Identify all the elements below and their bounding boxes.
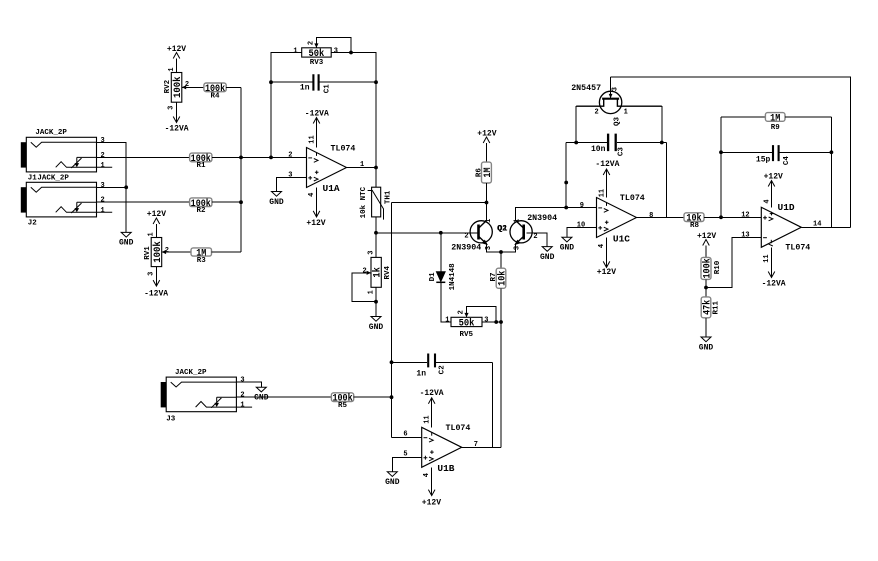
svg-text:R9: R9	[771, 124, 781, 132]
wire base node to D1	[440, 233, 442, 272]
wire U1D pin13 to divider	[706, 237, 761, 287]
junction R5/U1B node	[390, 395, 394, 399]
svg-text:C3: C3	[617, 147, 625, 157]
svg-text:1: 1	[168, 67, 176, 71]
svg-text:GND: GND	[369, 323, 384, 332]
svg-text:R7: R7	[490, 272, 498, 281]
svg-text:1: 1	[293, 47, 297, 55]
wire feedback top	[611, 77, 851, 227]
wire U1C pin11 to -12VA	[606, 169, 608, 198]
wire C3 right down to U1C output	[666, 143, 668, 218]
resistor R11 47k	[701, 297, 711, 318]
junction R9/C4 left node	[719, 215, 723, 219]
svg-text:+12V: +12V	[697, 232, 716, 241]
wire Q2 base to GND	[526, 233, 547, 247]
svg-text:D1: D1	[429, 272, 437, 282]
svg-text:C2: C2	[439, 365, 447, 375]
svg-text:R3: R3	[197, 257, 207, 265]
svg-text:U1C: U1C	[613, 234, 630, 245]
ground U1B pin5	[387, 472, 397, 477]
wire Q2 emitter	[501, 244, 516, 252]
svg-text:GND: GND	[560, 244, 575, 253]
svg-text:3: 3	[240, 377, 244, 385]
wire RV3 wiper loop	[316, 38, 351, 53]
wire R10 to divider node	[705, 279, 707, 297]
wire emitters to R7	[500, 252, 502, 268]
svg-text:-12VA: -12VA	[305, 110, 329, 119]
svg-text:2: 2	[165, 247, 169, 255]
resistor R6 1M	[482, 162, 492, 183]
svg-text:1: 1	[624, 108, 628, 116]
op-amp U1D TL074	[761, 207, 801, 247]
wire J2 pin2 to R2	[97, 201, 190, 203]
svg-text:TL074: TL074	[446, 424, 471, 433]
wire RV3 pin1 to inverting node	[271, 53, 302, 158]
svg-text:R4: R4	[210, 92, 220, 100]
wire U1A out to TH1	[375, 168, 377, 188]
svg-text:1: 1	[445, 317, 449, 325]
junction RV5/R7 node	[499, 320, 503, 324]
wire R7 to RV5 node	[500, 288, 502, 322]
potentiometer RV1 100k	[151, 238, 162, 267]
wire R2 to summing node	[212, 201, 241, 203]
svg-text:1: 1	[101, 162, 105, 170]
svg-text:R1: R1	[196, 162, 206, 170]
wire U1B output	[462, 446, 501, 448]
svg-text:JACK_2P: JACK_2P	[35, 129, 67, 137]
wire R9 right	[785, 116, 831, 118]
svg-text:4: 4	[308, 193, 316, 197]
op-amp U1C TL074	[597, 198, 637, 238]
junction C4 right	[830, 150, 834, 154]
wire +12V to R6	[486, 143, 488, 162]
svg-text:15p: 15p	[756, 156, 771, 165]
svg-text:GND: GND	[540, 253, 555, 262]
svg-text:-12VA: -12VA	[420, 389, 444, 398]
svg-text:GND: GND	[699, 343, 714, 352]
wire Q1 collector	[486, 203, 488, 221]
wire U1B pin5 to GND	[392, 457, 421, 472]
svg-text:100k: 100k	[702, 258, 714, 278]
svg-text:-12VA: -12VA	[762, 279, 786, 288]
svg-text:C4: C4	[783, 156, 791, 166]
svg-text:1: 1	[514, 219, 522, 223]
svg-text:1: 1	[101, 207, 105, 215]
wire TH1 to base node	[375, 217, 377, 233]
svg-text:TL074: TL074	[331, 145, 356, 154]
svg-text:3: 3	[101, 182, 105, 190]
svg-text:9: 9	[580, 202, 584, 210]
wire RV2 wiper to R4	[182, 86, 204, 88]
wire Q1 emitter	[487, 244, 502, 252]
junction R1/R4 node	[239, 156, 243, 160]
svg-text:U1D: U1D	[778, 202, 795, 213]
svg-text:10k: 10k	[497, 271, 509, 286]
svg-text:JACK_2P: JACK_2P	[37, 175, 69, 183]
resistor R8 10k	[684, 213, 704, 222]
wire U1A pin4 to +12V	[316, 188, 318, 217]
wire J1 pin3 to J2 pin3 to GND	[97, 142, 127, 232]
svg-text:1M: 1M	[770, 113, 780, 124]
ground U1A pin3	[272, 192, 282, 197]
wire RV5 wiper loop	[467, 307, 497, 323]
svg-text:RV5: RV5	[459, 331, 473, 339]
svg-text:Q1: Q1	[498, 224, 508, 233]
junction TH1/RV4/base node	[374, 231, 378, 235]
svg-text:2: 2	[240, 392, 244, 400]
resistor R3 1M	[191, 248, 212, 256]
ground R11	[701, 337, 711, 342]
wire Q3 gate to feedback	[610, 77, 612, 98]
svg-text:RV4: RV4	[384, 266, 392, 280]
wire R9 left leg	[720, 117, 722, 217]
svg-text:2N5457: 2N5457	[571, 84, 601, 93]
svg-text:Q3: Q3	[613, 117, 621, 127]
svg-text:3: 3	[147, 272, 155, 276]
wire R8 to U1D pin12	[704, 216, 761, 218]
wire U1A output	[347, 167, 377, 169]
svg-text:12: 12	[741, 212, 749, 220]
wire R4 to bus	[226, 86, 241, 88]
svg-text:1n: 1n	[416, 370, 426, 379]
svg-text:8: 8	[649, 212, 653, 220]
svg-text:1: 1	[367, 290, 375, 294]
potentiometer RV4 1k	[371, 257, 381, 287]
junction C3 left branch	[564, 181, 568, 185]
wire +12V to R10	[705, 246, 707, 258]
svg-text:11: 11	[763, 254, 771, 262]
svg-text:3: 3	[484, 317, 488, 325]
op-amp U1B TL074	[422, 427, 462, 467]
svg-text:2N3904: 2N3904	[451, 243, 481, 252]
svg-text:1: 1	[148, 232, 156, 236]
svg-text:J1: J1	[28, 175, 38, 183]
svg-text:2: 2	[362, 268, 366, 276]
junction R1/RV3 node	[269, 156, 273, 160]
resistor R5 100k	[331, 393, 353, 402]
svg-text:RV1: RV1	[144, 246, 152, 260]
svg-text:-12VA: -12VA	[144, 289, 168, 298]
svg-text:2: 2	[101, 152, 105, 160]
svg-text:R2: R2	[196, 207, 206, 215]
junction U1C pin9 node	[564, 206, 568, 210]
wire U1C pin4 to +12V	[606, 238, 608, 268]
wire R7 node to U1B output	[500, 322, 502, 447]
svg-text:1M: 1M	[483, 167, 494, 177]
wire R9 right leg	[830, 117, 832, 227]
svg-text:+12V: +12V	[422, 498, 441, 507]
svg-text:-12VA: -12VA	[595, 160, 619, 169]
svg-text:TH1: TH1	[384, 190, 392, 204]
resistor R4 100k	[204, 83, 226, 92]
capacitor C1 1n	[271, 81, 376, 83]
wire RV2 pin1	[176, 59, 178, 73]
wire R1 to U1A pin2	[212, 156, 307, 158]
wire RV1 wiper to R3	[162, 251, 191, 253]
svg-text:2: 2	[594, 108, 598, 116]
wire J3 pin2 to R5	[237, 396, 332, 398]
wire U1C output to R8	[637, 216, 685, 218]
wire RV4 wiper loop to pin1	[352, 273, 376, 302]
potentiometer RV5 50k	[451, 317, 482, 326]
connector J2 JACK_2P	[26, 182, 96, 217]
junction C3 right / Q3 drain	[660, 141, 664, 145]
transistor Q2 2N3904	[510, 221, 532, 243]
wire C3 left vertical	[565, 143, 567, 208]
junction U1A output node	[374, 166, 378, 170]
wire base node to RV4	[375, 233, 377, 258]
svg-text:TL074: TL074	[785, 244, 810, 253]
svg-text:10: 10	[577, 221, 585, 229]
ground Q2 base	[542, 247, 552, 252]
wire RV1 pin1	[155, 224, 157, 238]
svg-text:4: 4	[763, 199, 771, 203]
wire U1B pin6	[392, 436, 422, 438]
svg-text:2: 2	[288, 151, 292, 159]
resistor R1 100k	[190, 153, 212, 162]
wire J1 pin2 to R1	[97, 156, 190, 158]
junction J2 pin3	[124, 185, 128, 189]
svg-text:3: 3	[167, 106, 175, 110]
junction R6/TH1 wire node	[485, 201, 489, 205]
svg-text:1N4148: 1N4148	[449, 263, 457, 291]
svg-text:J2: J2	[28, 219, 38, 227]
svg-text:2: 2	[533, 233, 537, 241]
svg-text:2: 2	[458, 310, 466, 314]
svg-text:JACK_2P: JACK_2P	[175, 369, 207, 377]
svg-text:2N3904: 2N3904	[527, 214, 557, 223]
wire U1C pin10 to GND	[567, 228, 597, 238]
junction C1 left	[269, 80, 273, 84]
wire RV2 pin3 to -12VA	[176, 102, 178, 122]
transistor Q1 2N3904	[470, 221, 492, 243]
wire TH1 corner to R6 node	[392, 202, 487, 204]
capacitor C4 15p	[721, 151, 831, 153]
junction C1 right	[374, 80, 378, 84]
connector J1 JACK_2P	[26, 137, 96, 172]
wire R3 to bus	[212, 251, 242, 253]
wire U1A pin3 to GND	[277, 178, 307, 192]
ground J3	[256, 387, 266, 392]
wire U1B pin11 to -12VA	[431, 398, 433, 428]
svg-text:R5: R5	[338, 402, 348, 410]
svg-text:11: 11	[424, 415, 432, 423]
wire R11 to GND	[705, 318, 707, 337]
junction RV4 pin1/wiper	[374, 300, 378, 304]
junction C2 left	[390, 360, 394, 364]
svg-text:1: 1	[240, 402, 244, 410]
capacitor C2 1n	[392, 361, 493, 363]
svg-text:+12V: +12V	[306, 219, 325, 228]
junction RV5 wiper	[494, 320, 498, 324]
svg-text:2: 2	[185, 81, 189, 89]
svg-text:3: 3	[334, 47, 338, 55]
wire RV3 pin3 to U1A output	[331, 53, 376, 168]
resistor R9 1M	[721, 116, 765, 118]
diode D1 1N4148	[436, 272, 445, 282]
svg-text:U1B: U1B	[437, 463, 454, 474]
svg-text:RV3: RV3	[310, 59, 324, 67]
svg-text:50k: 50k	[459, 317, 475, 329]
svg-text:3: 3	[514, 246, 522, 250]
svg-text:4: 4	[598, 244, 606, 248]
svg-text:13: 13	[741, 232, 749, 240]
wire U1B pin4 to +12V	[431, 467, 433, 495]
transistor Q3 2N5457 JFET	[599, 91, 621, 113]
svg-text:2: 2	[308, 41, 316, 45]
svg-text:4: 4	[423, 473, 431, 477]
wire R6 to collector node	[486, 183, 488, 221]
svg-text:GND: GND	[385, 478, 400, 487]
svg-text:RV2: RV2	[164, 79, 172, 93]
svg-text:10n: 10n	[591, 145, 606, 154]
wire U1A pin11 to -12VA	[316, 118, 318, 148]
svg-text:+12V: +12V	[764, 173, 783, 182]
junction R2 node	[239, 200, 243, 204]
potentiometer RV2 100k	[171, 73, 182, 103]
wire Q3 source down	[575, 106, 577, 142]
svg-text:2: 2	[101, 197, 105, 205]
junction divider node	[704, 286, 708, 290]
resistor R7 10k	[496, 268, 506, 288]
wire Q2 collector to U1C pin9	[516, 208, 597, 221]
wire C2 right to U1B output	[491, 362, 493, 447]
capacitor C3 10n	[566, 142, 666, 144]
svg-text:TL074: TL074	[620, 194, 645, 203]
svg-text:GND: GND	[269, 198, 284, 207]
svg-text:J3: J3	[166, 415, 176, 423]
wire corner to U1B pin6	[391, 203, 393, 438]
ground RV4	[371, 317, 381, 322]
svg-text:R6: R6	[476, 168, 484, 178]
ground jacks	[121, 232, 131, 237]
wire J3 pin3 to GND	[237, 382, 262, 387]
svg-text:R10: R10	[714, 260, 722, 274]
potentiometer RV3 50k	[302, 48, 332, 57]
wire U1D pin4 to +12V	[771, 181, 773, 208]
junction RV3 wiper/pin3	[349, 51, 353, 55]
svg-text:U1A: U1A	[323, 183, 340, 194]
wire U1D output	[801, 226, 850, 228]
svg-text:-12VA: -12VA	[165, 124, 189, 133]
svg-text:GND: GND	[119, 239, 134, 248]
wire RV4 pin1 to GND	[375, 287, 377, 316]
junction C3 left / Q3 source	[574, 141, 578, 145]
resistor R2 100k	[190, 198, 212, 207]
svg-text:+12V: +12V	[597, 268, 616, 277]
junction emitters	[499, 250, 503, 254]
thermistor TH1 10k NTC	[372, 187, 381, 217]
wire U1D pin11 to -12VA	[771, 247, 773, 277]
svg-text:3: 3	[611, 87, 619, 91]
ground U1C pin10	[562, 237, 572, 242]
svg-text:3: 3	[367, 250, 375, 254]
svg-text:GND: GND	[254, 394, 269, 403]
svg-text:3: 3	[288, 171, 292, 179]
svg-text:R11: R11	[712, 300, 720, 314]
svg-text:C1: C1	[324, 84, 332, 94]
svg-text:11: 11	[308, 135, 316, 143]
svg-text:10k NTC: 10k NTC	[360, 186, 368, 218]
svg-text:R8: R8	[690, 222, 700, 230]
resistor R10 100k	[701, 257, 711, 279]
connector J3 JACK_2P	[166, 377, 236, 412]
wire base node to Q1 base	[376, 232, 478, 234]
svg-text:3: 3	[101, 137, 105, 145]
wire RV5 pin3 to R7 node	[482, 321, 501, 323]
svg-text:1k: 1k	[372, 267, 384, 278]
wire RV1 pin3 to -12VA	[155, 267, 157, 287]
svg-text:11: 11	[599, 189, 607, 197]
junction C4 left	[719, 150, 723, 154]
svg-text:2: 2	[464, 233, 468, 241]
svg-text:1n: 1n	[300, 84, 310, 93]
op-amp U1A TL074	[307, 148, 347, 188]
wire Q3 drain down	[661, 106, 663, 142]
wire R5 to U1B node	[354, 396, 392, 398]
wire summing bus vertical	[240, 87, 242, 252]
junction D1 node	[439, 231, 443, 235]
wire D1 to RV5	[441, 282, 451, 322]
